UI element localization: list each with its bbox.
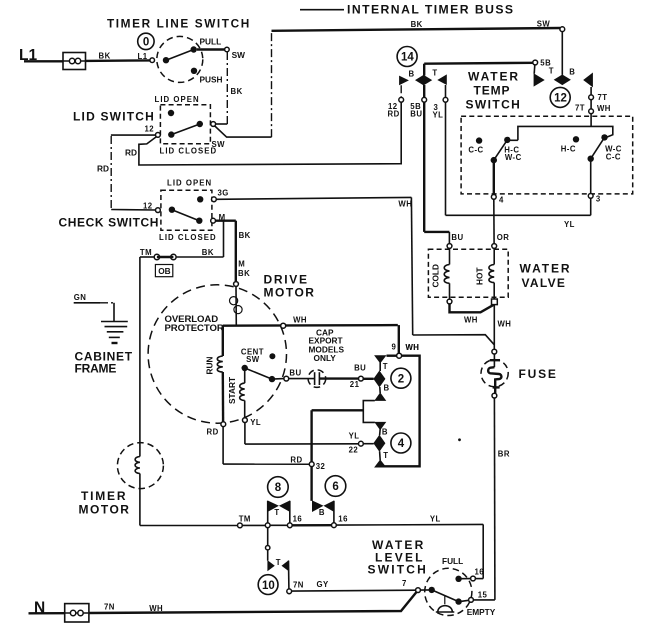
- terminal 4: [491, 195, 504, 205]
- wire YL temp to valve row: [446, 198, 591, 229]
- label OB: [155, 265, 172, 277]
- wire BK drop from SW: [227, 52, 242, 124]
- wire 3 YL riser: [445, 102, 447, 215]
- cold solenoid: [431, 248, 450, 299]
- terminal 22: [349, 431, 364, 454]
- valve hot outlet: [492, 299, 512, 349]
- wire 9 WH drop: [392, 325, 420, 358]
- svg-text:TIMER LINE SWITCH: TIMER LINE SWITCH: [107, 17, 251, 31]
- svg-text:WH: WH: [498, 319, 512, 328]
- svg-text:L1: L1: [138, 52, 148, 61]
- svg-text:CHECK SWITCH: CHECK SWITCH: [59, 216, 160, 230]
- svg-text:LID OPEN: LID OPEN: [155, 95, 200, 104]
- svg-text:B: B: [409, 70, 415, 79]
- svg-text:MOTOR: MOTOR: [264, 286, 316, 300]
- terminal 7T: [575, 93, 611, 126]
- timer contact 14: [399, 64, 447, 98]
- svg-text:16: 16: [293, 515, 303, 524]
- svg-text:0: 0: [143, 37, 149, 49]
- water temp switch bracket: [518, 126, 613, 140]
- svg-text:15: 15: [478, 591, 488, 600]
- connector N: [65, 604, 89, 622]
- svg-text:4: 4: [398, 438, 405, 450]
- svg-text:BK: BK: [99, 52, 111, 61]
- svg-text:TEMP: TEMP: [474, 84, 511, 98]
- motor frame top wire: [223, 316, 398, 329]
- ground cabinet frame: [101, 322, 128, 344]
- svg-text:4: 4: [499, 195, 504, 204]
- svg-text:BU: BU: [354, 363, 366, 372]
- svg-text:W-C: W-C: [505, 153, 522, 162]
- svg-text:7T: 7T: [575, 104, 585, 113]
- bottom contact row wire: [140, 514, 348, 528]
- svg-text:WH: WH: [406, 343, 420, 352]
- circled 10: [258, 575, 278, 595]
- svg-text:12: 12: [554, 93, 567, 105]
- contact 2 to 4 bracket: [363, 401, 375, 423]
- wire L1 lead: [24, 60, 63, 62]
- svg-text:SWITCH: SWITCH: [368, 563, 429, 577]
- svg-text:ONLY: ONLY: [314, 353, 337, 363]
- label WATER VALVE: [520, 261, 572, 290]
- svg-text:FUSE: FUSE: [519, 367, 558, 381]
- circled 4: [391, 433, 411, 453]
- svg-text:PULL: PULL: [200, 37, 222, 47]
- svg-text:7N: 7N: [104, 602, 115, 611]
- svg-text:BU: BU: [410, 110, 422, 119]
- timer line switch S1: [150, 36, 245, 84]
- label CABINET FRAME: [75, 350, 133, 376]
- water valve V1: [428, 244, 508, 298]
- svg-text:SW: SW: [232, 50, 246, 60]
- svg-text:RUN: RUN: [205, 357, 215, 375]
- svg-text:GN: GN: [74, 293, 87, 302]
- svg-text:WH: WH: [293, 316, 307, 325]
- svg-text:PROTECTOR: PROTECTOR: [165, 323, 224, 334]
- wire lid SW to BK riser: [216, 123, 228, 125]
- ground GN wire: [74, 293, 114, 322]
- svg-text:32: 32: [316, 462, 326, 471]
- svg-text:LID SWITCH: LID SWITCH: [73, 110, 155, 124]
- svg-text:RD: RD: [125, 147, 137, 157]
- label WATER TEMP SWITCH: [466, 70, 522, 112]
- svg-text:GY: GY: [317, 580, 330, 589]
- wire lid SW diagonal to bus riser: [215, 31, 272, 137]
- svg-text:PUSH: PUSH: [200, 74, 223, 84]
- wire M to motor BK: [216, 221, 251, 282]
- svg-text:2: 2: [398, 373, 404, 385]
- drive motor label: [264, 273, 316, 300]
- svg-text:FULL: FULL: [442, 556, 463, 566]
- svg-text:FRAME: FRAME: [75, 362, 117, 376]
- svg-text:T: T: [383, 451, 388, 460]
- svg-text:MOTOR: MOTOR: [79, 502, 131, 516]
- terminal 5B: [533, 58, 551, 67]
- timer contact 6: [312, 500, 334, 523]
- terminal 32: [309, 462, 325, 471]
- svg-text:YL: YL: [250, 418, 261, 427]
- svg-text:7: 7: [402, 579, 407, 588]
- svg-text:SW: SW: [246, 355, 260, 364]
- svg-text:SW: SW: [537, 19, 551, 28]
- svg-text:B: B: [384, 383, 390, 392]
- svg-text:BU: BU: [451, 233, 463, 242]
- svg-text:BK: BK: [411, 20, 423, 29]
- timer contact 4: [363, 422, 388, 468]
- svg-text:OB: OB: [158, 266, 170, 276]
- svg-text:BK: BK: [239, 231, 251, 240]
- water temp switch left pole: [468, 137, 521, 195]
- svg-text:WH: WH: [398, 199, 412, 208]
- timer dial mark 0: [138, 33, 154, 49]
- svg-text:RD: RD: [207, 428, 219, 437]
- svg-text:BK: BK: [231, 87, 243, 96]
- wire BR: [473, 398, 510, 600]
- svg-text:B: B: [569, 68, 575, 77]
- svg-text:12: 12: [143, 201, 153, 210]
- svg-text:OR: OR: [497, 233, 510, 242]
- wire TM down to timer motor: [139, 257, 141, 457]
- contact 14 terminals: [388, 97, 448, 119]
- svg-text:21: 21: [350, 380, 360, 389]
- motor RD terminal: [207, 422, 226, 437]
- timer contact 2: [363, 355, 389, 401]
- svg-text:WH: WH: [597, 104, 611, 113]
- svg-text:M: M: [238, 260, 245, 269]
- timer contact 10: [266, 528, 289, 589]
- capacitor C1: [289, 327, 367, 389]
- fuse F1: [481, 349, 558, 398]
- START winding: [227, 371, 245, 418]
- terminal 3: [588, 194, 601, 204]
- svg-text:7T: 7T: [598, 93, 608, 102]
- svg-text:RD: RD: [388, 110, 400, 119]
- svg-text:DRIVE: DRIVE: [264, 273, 309, 287]
- svg-text:T: T: [383, 362, 388, 371]
- svg-text:16: 16: [338, 515, 348, 524]
- wire BK to timer line switch: [86, 52, 150, 62]
- svg-text:RD: RD: [290, 455, 302, 464]
- svg-text:B: B: [319, 508, 325, 517]
- svg-text:LID OPEN: LID OPEN: [167, 178, 212, 187]
- svg-text:6: 6: [332, 481, 338, 493]
- timer contact 8: [267, 500, 290, 523]
- svg-text:SW: SW: [212, 140, 226, 149]
- svg-text:WH: WH: [464, 315, 478, 324]
- svg-text:WATER: WATER: [520, 261, 572, 275]
- wire N lead: [29, 612, 65, 614]
- wire 14 to 5B: [424, 62, 533, 65]
- water level switch S5: [402, 556, 496, 617]
- svg-text:BR: BR: [498, 450, 510, 459]
- svg-text:T: T: [549, 67, 554, 76]
- connector TM: [140, 254, 176, 259]
- svg-text:T: T: [276, 558, 281, 567]
- wire N to water level switch: [89, 592, 416, 613]
- svg-text:8: 8: [275, 482, 282, 494]
- water temp switch right pole: [561, 134, 622, 193]
- drive motor M1 boundary: [148, 285, 286, 423]
- wire YL to water level switch: [336, 514, 483, 578]
- circled 8: [268, 477, 289, 498]
- svg-text:3G: 3G: [218, 189, 229, 198]
- svg-text:RD: RD: [97, 164, 109, 174]
- svg-text:BK: BK: [238, 269, 250, 278]
- svg-text:YL: YL: [349, 431, 360, 440]
- svg-text:7N: 7N: [293, 581, 304, 590]
- svg-text:YL: YL: [564, 220, 575, 229]
- hot solenoid: [475, 248, 495, 299]
- overload protector OL: [165, 282, 243, 334]
- svg-text:INTERNAL TIMER BUSS: INTERNAL TIMER BUSS: [347, 3, 515, 17]
- svg-text:H-C: H-C: [561, 145, 576, 154]
- stray mark: [458, 438, 461, 441]
- svg-text:10: 10: [262, 580, 275, 592]
- svg-text:T: T: [274, 508, 279, 517]
- svg-text:C-C: C-C: [468, 145, 483, 154]
- svg-text:BU: BU: [289, 368, 301, 377]
- timer contact 12: [534, 65, 593, 95]
- wire YL to contact 4 junction: [245, 423, 359, 445]
- water temp switch S4 box: [461, 116, 633, 194]
- label WATER LEVEL SWITCH: [368, 538, 429, 577]
- svg-text:SWITCH: SWITCH: [466, 98, 522, 112]
- svg-text:14: 14: [401, 52, 414, 64]
- circled 14: [397, 47, 417, 67]
- centrifugal switch: [241, 348, 302, 383]
- svg-text:B: B: [382, 428, 388, 437]
- svg-text:C-C: C-C: [606, 152, 621, 161]
- wire WH from 3G to fuse: [398, 197, 494, 352]
- svg-text:3: 3: [596, 195, 601, 204]
- svg-text:EMPTY: EMPTY: [467, 607, 496, 617]
- svg-text:COLD: COLD: [431, 264, 441, 288]
- circled 6: [325, 476, 346, 497]
- svg-text:TM: TM: [239, 514, 251, 523]
- check switch S3: [143, 178, 229, 242]
- lid switch S2: [145, 95, 226, 156]
- timer motor M2: [117, 443, 163, 526]
- svg-text:16: 16: [475, 568, 485, 577]
- internal timer buss wire: [272, 19, 561, 31]
- wire OR from terminal 4: [494, 199, 510, 243]
- contact block 2/4 right bracket: [383, 356, 420, 467]
- motor frame left edge + RUN winding: [205, 326, 224, 422]
- wire RD stair to timer contact 14: [125, 102, 401, 165]
- svg-text:YL: YL: [433, 111, 444, 120]
- circled 2: [391, 368, 411, 388]
- wire 5B BU riser: [424, 102, 463, 243]
- label INTERNAL TIMER BUSS: [300, 3, 515, 17]
- motor frame bottom RD wire to 32: [223, 427, 309, 465]
- svg-text:START: START: [227, 377, 237, 404]
- svg-text:VALVE: VALVE: [522, 276, 567, 290]
- connector L1: [63, 53, 86, 70]
- terminal 21: [359, 376, 364, 381]
- wire YL junction riser: [312, 410, 364, 501]
- node SW top right: [560, 27, 565, 75]
- label TIMER MOTOR: [79, 489, 131, 516]
- wire 12 RD to check switch: [97, 135, 156, 210]
- svg-text:T: T: [432, 69, 437, 78]
- svg-text:TM: TM: [140, 248, 152, 257]
- svg-text:WATER: WATER: [468, 70, 520, 84]
- svg-text:9: 9: [392, 342, 397, 351]
- wire TM branch: [140, 221, 224, 257]
- svg-text:HOT: HOT: [475, 267, 485, 285]
- svg-text:BK: BK: [202, 248, 214, 257]
- wire 3G to WH drop: [216, 197, 411, 199]
- svg-text:LID CLOSED: LID CLOSED: [159, 233, 217, 242]
- valve cold outlet: [447, 299, 494, 324]
- svg-text:YL: YL: [430, 514, 441, 523]
- circled 12: [550, 87, 570, 107]
- terminal 7N with GY wire: [287, 580, 416, 593]
- svg-text:LID CLOSED: LID CLOSED: [160, 147, 218, 156]
- motor YL terminal: [243, 418, 262, 427]
- svg-text:22: 22: [349, 446, 359, 455]
- svg-text:TIMER: TIMER: [81, 489, 127, 503]
- svg-text:12: 12: [145, 125, 155, 134]
